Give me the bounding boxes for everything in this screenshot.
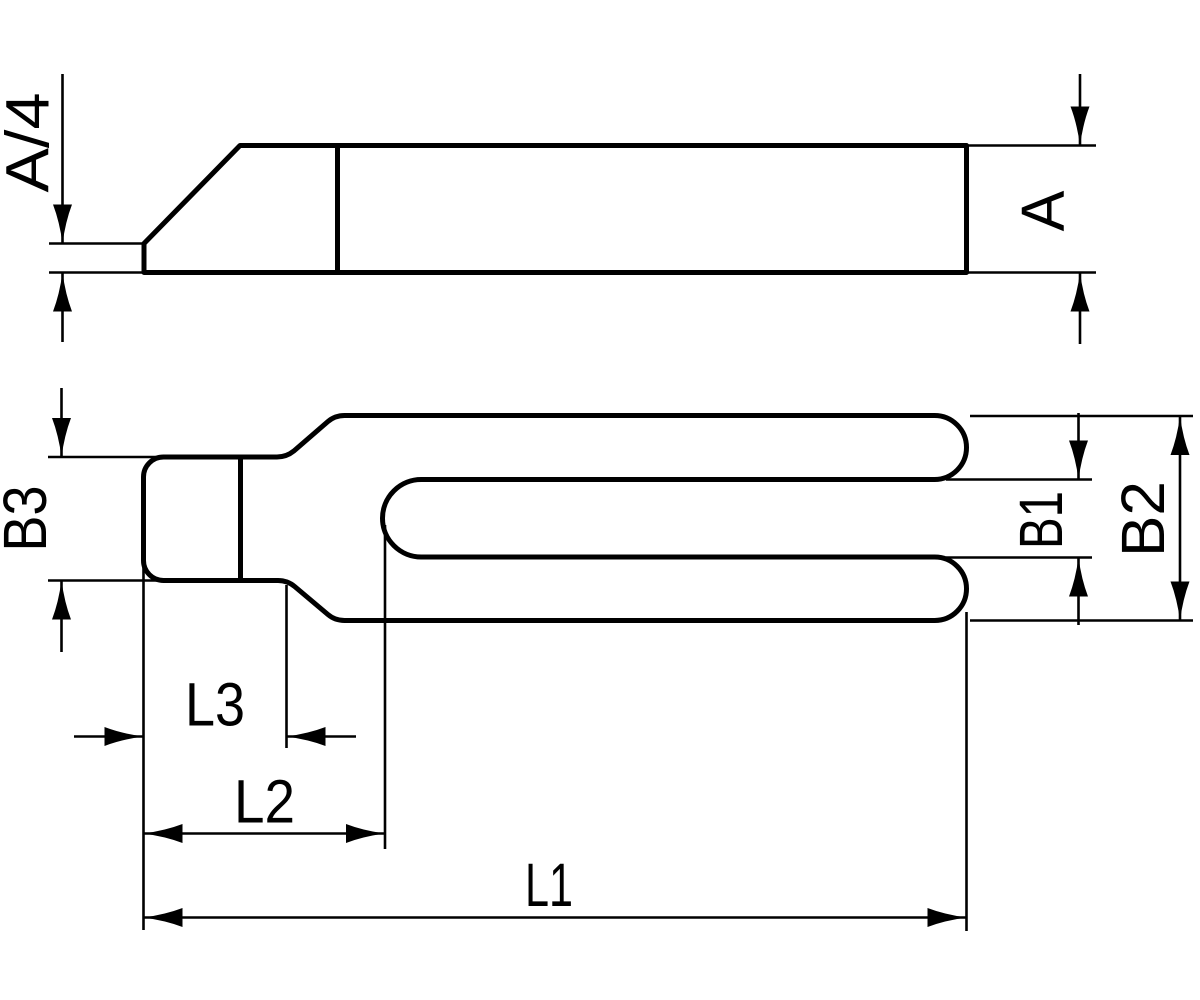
dimension B3 line upper — [60, 388, 63, 457]
dimension B2 extension line top — [970, 415, 1193, 418]
side view taper boundary line — [335, 146, 340, 273]
dimension L2 extension line right — [384, 525, 387, 849]
dimension L3 extension line right — [285, 585, 288, 748]
dimension A arrow down — [1071, 107, 1090, 146]
dimension A/4 line upper — [61, 74, 64, 244]
dimension B3 arrow down — [52, 418, 71, 457]
dimension L3 line left — [74, 735, 144, 738]
dimension B3 extension line top — [48, 456, 163, 459]
dimension A/4 extension line bottom — [49, 271, 144, 274]
dimension L3 arrow right — [105, 727, 144, 746]
dimension A/4 arrow down — [53, 205, 72, 244]
dimension A line upper — [1079, 74, 1082, 146]
dimension L1 arrow left — [144, 908, 183, 927]
svg-text:A/4: A/4 — [0, 93, 62, 193]
dimension L3 line right — [287, 735, 357, 738]
dimension L2 line — [144, 832, 386, 835]
dimension B1 arrow down — [1069, 441, 1088, 480]
svg-text:L3: L3 — [185, 671, 245, 739]
dimension A/4 extension line top — [49, 242, 144, 245]
dimension B2 arrow up — [1171, 416, 1190, 455]
svg-text:A: A — [1009, 190, 1077, 231]
dimension L1 arrow right — [928, 908, 967, 927]
dimension B2 line — [1179, 416, 1182, 621]
svg-text:B2: B2 — [1109, 481, 1177, 557]
dimension A line lower — [1079, 273, 1082, 345]
dimension B1 line upper — [1077, 413, 1080, 480]
dimension B2 extension line bottom — [970, 619, 1193, 622]
dimension B3 extension line bottom — [48, 579, 168, 582]
svg-text:B1: B1 — [1007, 491, 1075, 549]
shared left extension line for L dimensions — [142, 566, 145, 930]
dimension B1 line lower — [1077, 558, 1080, 626]
dimension L3 arrow left — [287, 727, 326, 746]
dimension B3 line lower — [60, 581, 63, 653]
dimension B1 arrow up — [1069, 558, 1088, 597]
svg-text:L2: L2 — [234, 768, 295, 836]
dimension B1 extension line bottom — [946, 556, 1092, 559]
svg-text:L1: L1 — [525, 851, 573, 919]
plan view fork outline — [144, 416, 967, 621]
dimension L2 arrow right — [346, 824, 385, 843]
dimension B3 arrow up — [52, 581, 71, 620]
dimension B2 arrow down — [1171, 582, 1190, 621]
svg-text:B3: B3 — [0, 486, 59, 552]
side view outline — [144, 146, 967, 273]
dimension A arrow up — [1071, 273, 1090, 312]
dimension A extension line top — [967, 144, 1097, 147]
plan view tongue end line — [238, 457, 243, 581]
dimension B1 extension line top — [946, 478, 1092, 481]
dimension L2 arrow left — [144, 824, 183, 843]
dimension L1 line — [144, 916, 967, 919]
dimension A/4 arrow up — [53, 273, 72, 312]
dimension A/4 line lower — [61, 273, 64, 343]
dimension L1 extension line right — [965, 612, 968, 931]
dimension A extension line bottom — [967, 271, 1097, 274]
